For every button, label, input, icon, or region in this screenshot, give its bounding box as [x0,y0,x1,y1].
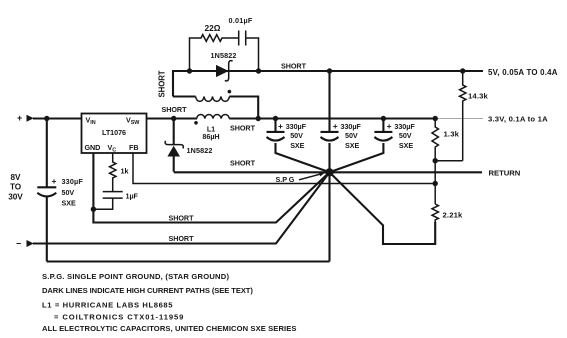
diode D2 1N5822 catch diode [165,119,183,172]
node 14.3k top junction [460,68,465,73]
svg-text:50V: 50V [290,131,303,140]
node C3 junction [381,116,386,121]
wire input cap ground return to star [47,260,330,262]
svg-text:330µF: 330µF [341,122,362,131]
svg-text:1N5822: 1N5822 [211,51,237,60]
node aux winding to 3.3V junction [256,116,261,121]
wire return rail through star [174,171,482,173]
svg-text:SHORT: SHORT [230,123,256,132]
capacitor C4 1uF [93,184,122,209]
label C_IN value [52,176,84,207]
svg-text:1.3k: 1.3k [444,129,460,138]
wire 5V rectifier line [190,70,484,72]
svg-text:86µH: 86µH [202,132,219,141]
svg-text:50V: 50V [399,131,412,140]
svg-text:L1 = HURRICANE LABS HL8685: L1 = HURRICANE LABS HL8685 [42,301,173,310]
svg-text:0.01µF: 0.01µF [229,16,253,25]
svg-text:1N5822: 1N5822 [187,146,213,155]
svg-text:FB: FB [129,143,138,152]
svg-text:330µF: 330µF [286,122,307,131]
wire FB node vertical [434,161,436,204]
resistor R1 1k on VC pin [109,153,115,184]
resistor R2 14.3k [460,71,466,161]
label C2 value [333,121,362,150]
capacitor C3 330uF output [330,119,393,173]
node - input terminal [16,239,34,249]
node C1 junction [273,116,278,121]
svg-text:DARK LINES INDICATE HIGH CURRE: DARK LINES INDICATE HIGH CURRENT PATHS (… [42,286,253,295]
svg-text:SXE: SXE [345,141,359,150]
svg-text:TO: TO [10,183,22,192]
node GND 1uF junction [91,207,96,212]
svg-text:330µF: 330µF [62,177,84,186]
wire GND pin to star ground [93,153,329,223]
node input cap junction [44,116,49,121]
svg-text:14.3k: 14.3k [468,92,489,101]
resistor R3 1.3k [432,119,463,161]
svg-text:+: + [333,121,338,131]
wire 3.3V line thin right portion [437,118,483,120]
svg-text:S.P.G. SINGLE POINT GROUND, (S: S.P.G. SINGLE POINT GROUND, (STAR GROUND… [42,272,229,281]
svg-text:1k: 1k [121,166,129,175]
svg-text:SHORT: SHORT [281,61,307,70]
svg-text:SHORT: SHORT [169,234,195,243]
label C1 value [278,121,307,150]
wire + input to VIN [33,117,82,119]
node 1.3k top junction [433,116,438,121]
svg-text:50V: 50V [62,188,75,197]
wire VSW output [147,117,198,119]
svg-text:+: + [387,121,392,131]
wire - input to star ground [33,172,330,243]
wire FB pin line [133,153,435,184]
node + input terminal [17,113,34,123]
svg-text:S.P G: S.P G [276,175,295,184]
svg-text:5V, 0.05A TO 0.4A: 5V, 0.05A TO 0.4A [488,68,558,77]
node 1.3k bottom junction [433,158,438,163]
svg-text:330µF: 330µF [394,122,415,131]
node snubber right junction [256,68,261,73]
diode D1 1N5822 rectifier [216,61,233,81]
wire 2.21k ground return to star [330,172,436,244]
label L1 86uH [202,124,219,141]
op-amp U1 LT1076 regulator box [82,114,147,154]
resistor R snubber 22 ohm [190,35,239,71]
wire aux winding left leg up to diode line [173,71,190,97]
svg-text:SXE: SXE [62,198,76,207]
wire 3.3V output line [229,117,437,119]
node aux winding phasing dot [228,90,232,94]
node L1 phasing dot [194,121,198,125]
label C3 value [387,121,416,150]
svg-text:+: + [278,121,283,131]
svg-text:8V: 8V [11,173,22,182]
svg-text:SXE: SXE [290,141,304,150]
svg-text:SHORT: SHORT [169,213,195,222]
svg-text:+: + [52,176,57,186]
svg-text:SHORT: SHORT [230,158,256,167]
svg-text:22Ω: 22Ω [205,23,221,33]
node C2 junction on 5V rail [327,68,332,73]
svg-text:SHORT: SHORT [162,105,188,114]
node FB line junction [433,181,438,186]
label S.P.G with arrow [276,172,326,184]
resistor R4 2.21k [432,204,438,223]
capacitor C snubber 0.01uF [239,31,259,72]
svg-text:50V: 50V [345,131,358,140]
inductor aux winding (coupled) [173,97,258,119]
svg-text:= COILTRONICS CTX01-11959: = COILTRONICS CTX01-11959 [54,313,184,322]
inductor L1 86uH winding [197,114,230,118]
svg-text:+: + [17,113,22,123]
svg-text:LT1076: LT1076 [102,128,126,137]
svg-text:2.21k: 2.21k [443,210,464,219]
capacitor C1 330uF output [267,119,330,173]
svg-text:SXE: SXE [399,141,413,150]
node star single point ground [325,168,333,176]
svg-text:1µF: 1µF [126,192,139,201]
node snubber left junction [187,68,192,73]
svg-text:RETURN: RETURN [489,168,521,177]
label input voltage 8V TO 30V [8,173,23,201]
svg-text:ALL ELECTROLYTIC CAPACITORS, U: ALL ELECTROLYTIC CAPACITORS, UNITED CHEM… [42,324,297,333]
svg-text:−: − [16,239,21,249]
capacitor C2 330uF 5V output [321,71,339,262]
node VSW junction [171,116,176,121]
svg-text:SHORT: SHORT [157,70,166,97]
svg-text:3.3V, 0.1A to 1A: 3.3V, 0.1A to 1A [488,115,548,124]
svg-text:GND: GND [85,143,101,152]
svg-text:30V: 30V [8,192,23,201]
capacitor C_IN 330uF input [37,119,56,262]
